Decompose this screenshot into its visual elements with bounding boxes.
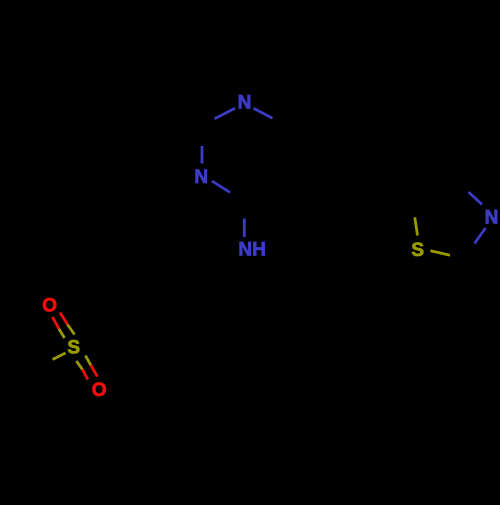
wire S=O top, line 2 yellow part bbox=[68, 325, 75, 335]
wire S=O bottom, line 1 red part bbox=[82, 369, 87, 379]
wire C4'-N3' half bbox=[469, 192, 483, 205]
svg-text:N: N bbox=[194, 167, 208, 188]
wire N3'-C2' half bbox=[475, 228, 486, 244]
wire C2-N3 half bbox=[201, 146, 204, 164]
svg-text:N: N bbox=[238, 93, 252, 114]
wire S=O top, line 2 red part bbox=[60, 313, 68, 325]
wire C5'-S1' half bbox=[415, 217, 418, 235]
wire S=O top, line 1 yellow part bbox=[59, 329, 65, 338]
wire N1-C2 half bbox=[215, 108, 236, 119]
wire N1-C6 half bbox=[254, 108, 273, 118]
wire S=O top, line 1 red part bbox=[53, 317, 60, 329]
wire S=O bottom, line 1 yellow part bbox=[76, 361, 82, 369]
svg-text:O: O bbox=[42, 295, 57, 316]
svg-text:NH: NH bbox=[238, 240, 265, 261]
wire S=O bottom, line 2 yellow part bbox=[85, 356, 90, 366]
svg-text:N: N bbox=[485, 208, 499, 229]
wire N3-C4 half bbox=[212, 181, 230, 193]
wire S=O bottom, line 2 red part bbox=[91, 365, 98, 376]
svg-text:S: S bbox=[411, 240, 424, 261]
wire C4-NH half bbox=[243, 219, 246, 238]
svg-text:O: O bbox=[92, 380, 107, 401]
svg-text:S: S bbox=[67, 338, 80, 359]
wire S-CH3 half bbox=[53, 353, 66, 360]
wire S1'-C2' half bbox=[431, 251, 451, 256]
